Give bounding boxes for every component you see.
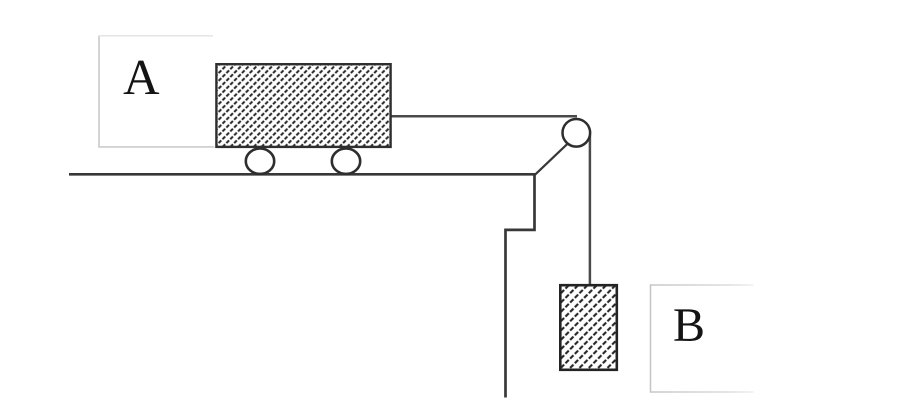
cart wheel left bbox=[246, 149, 274, 174]
block A cart body bbox=[216, 64, 390, 147]
wire rope vertical bbox=[589, 131, 592, 286]
label B bbox=[674, 309, 702, 341]
label box B bbox=[650, 284, 754, 392]
cart wheel right bbox=[332, 149, 360, 174]
wire pulley support diagonal bbox=[535, 143, 569, 175]
block B hanging mass bbox=[560, 285, 617, 370]
label box A bbox=[98, 36, 214, 148]
wire table edge with step bbox=[506, 174, 535, 398]
pulley bbox=[563, 119, 591, 147]
wire table surface bbox=[69, 173, 536, 176]
wire rope horizontal bbox=[390, 115, 577, 118]
label A bbox=[124, 61, 160, 94]
